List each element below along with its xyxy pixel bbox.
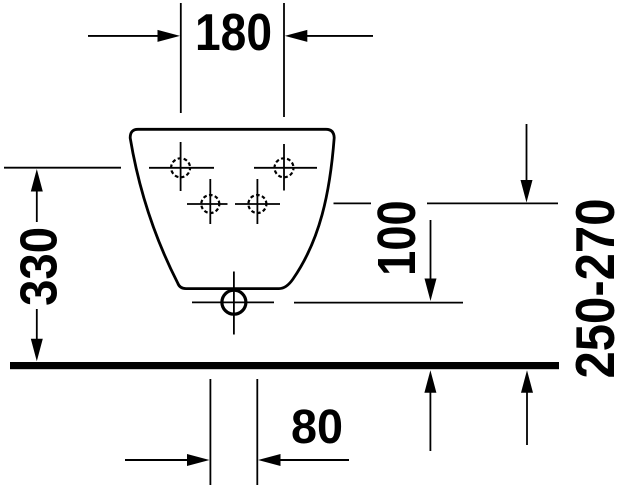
svg-text:250-270: 250-270 (564, 199, 626, 379)
floor line (10, 362, 559, 369)
dim 330 dimension line with arrows (31, 169, 43, 192)
drain outlet crosshair (192, 301, 274, 303)
hole upper-right dashed circle (275, 158, 294, 177)
hole middle-left dashed circle (201, 195, 219, 213)
hole upper-left crosshair (149, 167, 214, 169)
svg-text:100: 100 (367, 200, 427, 276)
dim 180 right leader + arrow (307, 35, 374, 37)
hole upper-left dashed circle (171, 158, 190, 177)
dim 80 right leader + arrow (281, 459, 350, 461)
svg-text:80: 80 (291, 401, 343, 454)
dim 100 upper extension line segments (334, 202, 372, 204)
dim 180 left leader + arrow (88, 35, 159, 37)
dim 180 left extension line (180, 3, 182, 113)
dim 80 left extension line (209, 379, 211, 485)
dim 180 right extension line (283, 3, 285, 117)
dim 100 lower extension line (294, 302, 463, 304)
dim 250-270 lower pointer line + arrow (right) (521, 370, 533, 393)
dim 250-270 upper pointer line + arrow (526, 124, 528, 181)
dim 330 top extension line (4, 167, 121, 169)
bidet body outline (130, 129, 334, 288)
dim 80 left leader + arrow (125, 459, 188, 461)
hole upper-right crosshair (254, 167, 317, 169)
floor pointer line + arrow at drain axis (424, 370, 436, 393)
hole middle-right crosshair (235, 203, 280, 205)
dim 100 dimension line + arrow (430, 220, 432, 279)
svg-text:180: 180 (195, 4, 272, 62)
hole middle-left crosshair (187, 203, 228, 205)
dim 80 right extension line (256, 379, 258, 485)
hole middle-right dashed circle (248, 195, 266, 213)
svg-text:330: 330 (11, 227, 69, 306)
drain outlet circle (222, 290, 246, 314)
